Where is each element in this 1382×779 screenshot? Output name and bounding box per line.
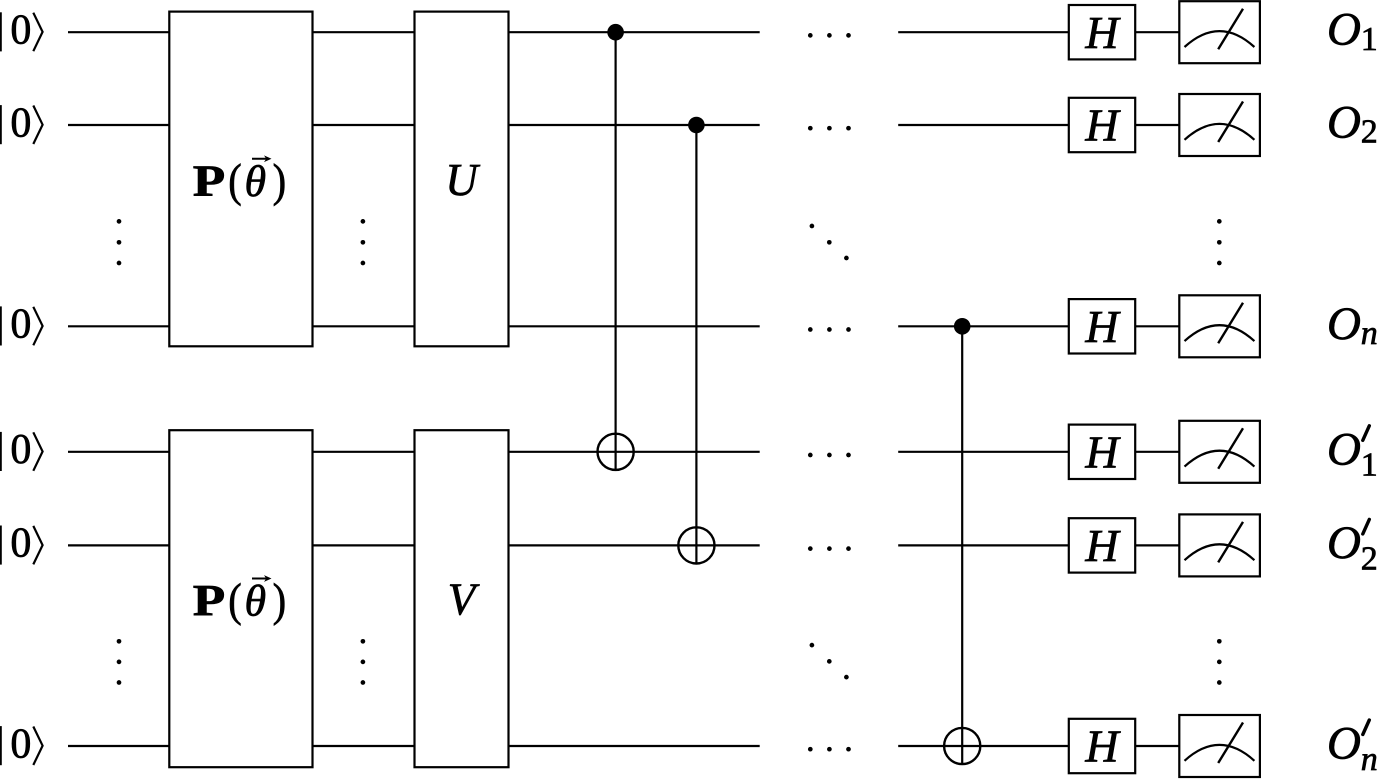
svg-text:O: O [1327, 298, 1361, 350]
wire qubit 1': before H [898, 451, 1069, 453]
wire qubit 2': between P and U/V [313, 544, 415, 546]
svg-text:O: O [1327, 718, 1361, 770]
svg-text:P: P [193, 156, 226, 205]
svg-text:H: H [1084, 520, 1121, 571]
wire qubit n': after U/V [509, 745, 760, 747]
wire qubit 2: before H [898, 124, 1069, 126]
gate V [415, 430, 509, 767]
svg-text:0: 0 [10, 302, 31, 348]
svg-text:O: O [1327, 97, 1361, 149]
svg-text:H: H [1084, 100, 1121, 151]
wire qubit 2: input lead [68, 124, 169, 126]
svg-text:H: H [1084, 426, 1121, 477]
wire qubit 1': between P and U/V [313, 451, 415, 453]
wire qubit n: between P and U/V [313, 325, 415, 327]
ellipsis vdots bottom register, input column [117, 639, 122, 685]
wire qubit n: after U/V [509, 325, 760, 327]
ellipsis vdots bottom register, between P and U/V [361, 639, 366, 685]
CNOT target on qubit 1' [598, 434, 634, 470]
Hadamard gate H qubit n' [1069, 719, 1135, 773]
svg-text:n: n [1361, 315, 1378, 352]
ellipsis cdots qubit n wire continuation [808, 327, 851, 332]
wire qubit 1': H to meter [1135, 451, 1179, 453]
svg-text:(: ( [228, 155, 242, 207]
wire CNOT 2: vertical control line [695, 125, 697, 564]
svg-text:1: 1 [1361, 447, 1378, 484]
ellipsis cdots qubit 2' wire continuation [808, 546, 851, 551]
wire qubit 2: between P and U/V [313, 124, 415, 126]
svg-text:0: 0 [10, 100, 31, 146]
wire qubit n: H to meter [1135, 325, 1179, 327]
svg-text:0: 0 [10, 8, 31, 54]
svg-text:θ: θ [245, 157, 267, 206]
wire qubit 2': input lead [68, 544, 169, 546]
wire qubit n': before H [898, 745, 1069, 747]
measurement meter qubit n [1179, 295, 1260, 357]
Hadamard gate H qubit 1 [1069, 5, 1135, 59]
ket |0> input label qubit 1' [1, 427, 43, 473]
svg-text:n: n [1361, 741, 1378, 778]
Hadamard gate H qubit 2' [1069, 518, 1135, 572]
measurement meter qubit n' [1179, 715, 1260, 777]
svg-text:0: 0 [10, 427, 31, 473]
wire qubit 1: before H [898, 31, 1069, 33]
output label O_n [1327, 298, 1378, 352]
svg-text:): ) [273, 155, 287, 207]
ellipsis vdots bottom register, meter column [1217, 639, 1222, 685]
ket |0> input label qubit n [1, 302, 43, 348]
wire qubit n': between P and U/V [313, 745, 415, 747]
wire qubit 2: after U/V [509, 124, 760, 126]
svg-text:(: ( [228, 575, 242, 627]
svg-text:H: H [1084, 721, 1121, 772]
control dot on qubit 2 [688, 117, 705, 134]
wire qubit n: before H [898, 325, 1069, 327]
wire qubit 1: after U/V [509, 31, 760, 33]
ellipsis vdots top register, meter column [1217, 219, 1222, 265]
svg-text:O: O [1327, 4, 1361, 56]
wire qubit n: input lead [68, 325, 169, 327]
output label O'_2 [1327, 517, 1378, 577]
gate P(theta-vector) top register [169, 12, 312, 347]
svg-text:H: H [1084, 7, 1121, 58]
control dot on qubit n [954, 318, 971, 335]
output label O_1 [1327, 4, 1378, 58]
svg-text:1: 1 [1361, 21, 1378, 58]
Hadamard gate H qubit 2 [1069, 98, 1135, 152]
wire qubit 1: input lead [68, 31, 169, 33]
control dot on qubit 1 [607, 24, 624, 41]
svg-text:O: O [1327, 423, 1361, 475]
Hadamard gate H qubit 1' [1069, 425, 1135, 479]
svg-text:P: P [193, 576, 226, 625]
output label O_2 [1327, 97, 1378, 151]
svg-text:0: 0 [10, 721, 31, 767]
output label O'_1 [1327, 423, 1378, 483]
gate P(theta-vector) bottom register [169, 430, 312, 767]
svg-text:2: 2 [1361, 540, 1378, 577]
ellipsis ddots (diagonal) top register [810, 224, 849, 261]
ellipsis ddots (diagonal) bottom register [810, 643, 849, 680]
measurement meter qubit 1' [1179, 421, 1260, 483]
svg-text:V: V [448, 575, 480, 625]
svg-text:O: O [1327, 517, 1361, 569]
wire CNOT n: vertical control line [961, 326, 963, 764]
wire qubit 1: between P and U/V [313, 31, 415, 33]
svg-text:): ) [273, 575, 287, 627]
ellipsis cdots qubit 1 wire continuation [808, 33, 851, 38]
ellipsis cdots qubit n' wire continuation [808, 747, 851, 752]
wire qubit 2': before H [898, 544, 1069, 546]
measurement meter qubit 2 [1179, 94, 1260, 156]
CNOT target on qubit n' [944, 728, 980, 764]
wire qubit 2': H to meter [1135, 544, 1179, 546]
ellipsis vdots top register, between P and U/V [361, 219, 366, 265]
wire qubit 2': after U/V [509, 544, 760, 546]
Hadamard gate H qubit n [1069, 299, 1135, 353]
wire CNOT 1: vertical control line [614, 32, 616, 470]
ket |0> input label qubit n' [1, 721, 43, 767]
CNOT target on qubit 2' [678, 527, 714, 563]
wire qubit 1': input lead [68, 451, 169, 453]
wire qubit 1': after U/V [509, 451, 760, 453]
ket |0> input label qubit 2' [1, 521, 43, 567]
wire qubit 1: H to meter [1135, 31, 1179, 33]
ket |0> input label qubit 2 [1, 100, 43, 146]
svg-text:2: 2 [1361, 114, 1378, 151]
wire qubit 2: H to meter [1135, 124, 1179, 126]
ellipsis vdots top register, input column [117, 219, 122, 265]
ket |0> input label qubit 1 [1, 8, 43, 54]
svg-text:U: U [445, 155, 480, 205]
ellipsis cdots qubit 2 wire continuation [808, 126, 851, 131]
wire qubit n': input lead [68, 745, 169, 747]
svg-text:θ: θ [245, 577, 267, 626]
measurement meter qubit 2' [1179, 514, 1260, 576]
measurement meter qubit 1 [1179, 1, 1260, 63]
output label O'_n [1327, 718, 1378, 778]
wire qubit n': H to meter [1135, 745, 1179, 747]
svg-text:H: H [1084, 301, 1121, 352]
svg-text:0: 0 [10, 521, 31, 567]
ellipsis cdots qubit 1' wire continuation [808, 453, 851, 458]
gate U [415, 12, 509, 347]
